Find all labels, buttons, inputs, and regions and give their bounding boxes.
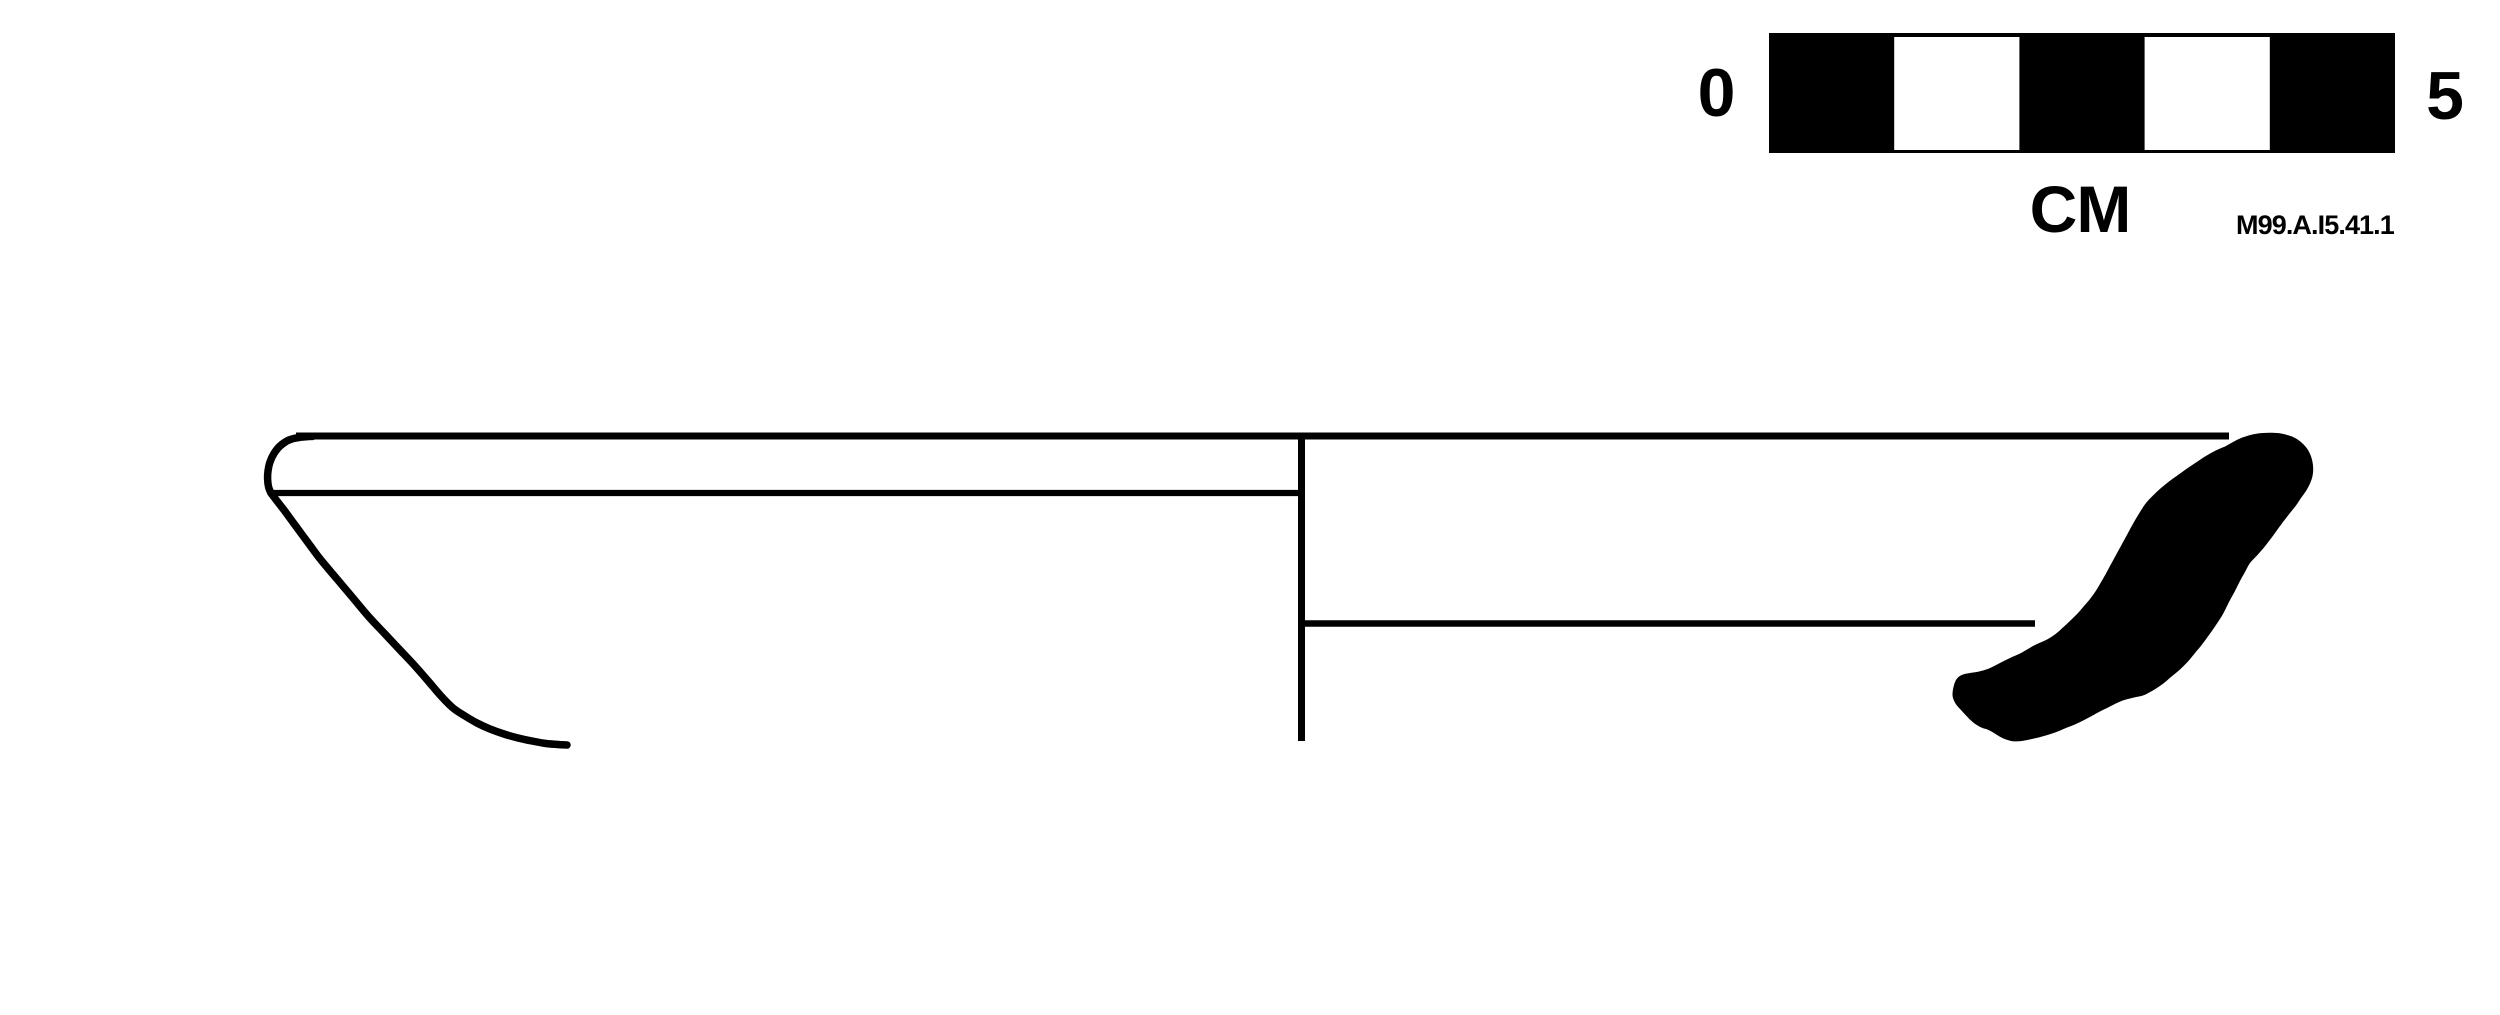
rim top line: [296, 433, 2229, 440]
lower break line (right): [1301, 620, 2035, 627]
sherd cross-section (filled): [1953, 433, 2314, 742]
inner rim line: [271, 490, 1301, 496]
svg-text:M99.A.I5.41.1: M99.A.I5.41.1: [2236, 210, 2395, 240]
rim left cap: [268, 436, 314, 494]
scale bar white segment 4: [2145, 37, 2270, 150]
center section line: [1298, 434, 1305, 741]
scale bar white segment 2: [1894, 37, 2019, 150]
svg-text:5: 5: [2426, 58, 2464, 134]
scale bar frame (black): [1769, 33, 2395, 153]
svg-text:CM: CM: [2030, 172, 2131, 246]
svg-text:0: 0: [1698, 55, 1736, 131]
outer wall broken-edge curve: [271, 494, 567, 746]
